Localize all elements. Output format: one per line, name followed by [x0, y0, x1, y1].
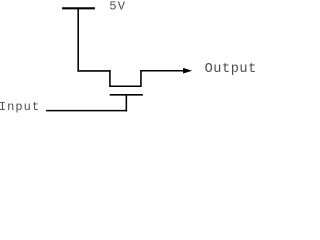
wire from 5V rail down to transistor drain [77, 8, 79, 71]
wire: drain horizontal segment [77, 70, 110, 72]
transistor gate bar [110, 94, 143, 96]
svg-text:5V: 5V [109, 0, 126, 14]
svg-text:Output: Output [205, 62, 256, 77]
arrowhead to Output [183, 68, 192, 74]
transistor Q1 channel (source-drain U shape) [110, 70, 141, 86]
wire: source to Output [140, 70, 185, 72]
wire: gate stub down to input wire [125, 95, 127, 112]
wire: Input horizontal [46, 110, 127, 112]
svg-text:Input: Input [0, 100, 40, 114]
power rail +5V bar [62, 7, 95, 9]
